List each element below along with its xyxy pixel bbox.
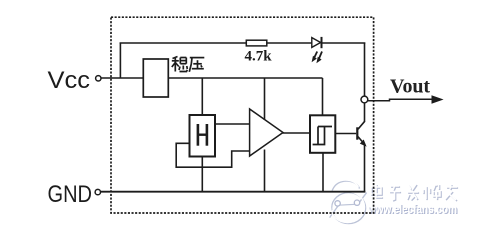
wire op-amp ground: [264, 150, 266, 193]
wire schmitt vcc feed: [322, 78, 324, 115]
regulator block: [143, 59, 168, 97]
node output: [361, 96, 368, 103]
watermark logo: [329, 180, 367, 224]
wire regulator to schmitt vcc rail: [168, 77, 322, 79]
wire Vout with arrow: [368, 99, 432, 100]
svg-text:Vout: Vout: [390, 75, 430, 97]
terminal GND: [95, 189, 100, 194]
label 稳压 (drawn): [172, 57, 188, 72]
wire ground rail: [101, 191, 365, 193]
schmitt trigger: [310, 115, 335, 153]
wire Vcc input to regulator: [101, 77, 143, 79]
wire top rail left segment: [120, 42, 247, 44]
wire op-amp vcc feed: [264, 78, 266, 120]
resistor R1 4.7k: [246, 40, 266, 46]
wire right rail down to node: [364, 43, 366, 97]
label H: [197, 124, 209, 146]
wire vertical up to top rail: [119, 43, 121, 79]
svg-text:www.elecfans.com: www.elecfans.com: [367, 202, 457, 216]
wire schmitt output to transistor base: [335, 133, 356, 135]
wire LED to right rail corner: [323, 42, 366, 44]
LED D1: [312, 37, 322, 63]
wire hall output to op-amp +: [215, 123, 250, 125]
svg-text:Vcc: Vcc: [48, 67, 91, 94]
svg-text:4.7k: 4.7k: [245, 49, 273, 65]
wire op-amp output: [283, 132, 311, 134]
hall element: [190, 115, 216, 157]
transistor Q1: [356, 121, 366, 146]
op-amp U1: [250, 109, 283, 156]
watermark text 电子发烧友 (drawn, embossed): [371, 184, 458, 201]
svg-text:GND: GND: [48, 181, 93, 208]
wire emitter to ground rail: [364, 145, 366, 193]
wire resistor to LED: [267, 42, 312, 44]
wire collector to node: [364, 102, 366, 122]
hysteresis symbol: [313, 127, 332, 145]
wire hall to ground: [201, 157, 203, 193]
wire schmitt to ground: [322, 153, 324, 192]
wire hall vcc feed: [201, 78, 203, 115]
wire hall feedback loop: [176, 143, 250, 167]
IC boundary dashed box: [111, 17, 374, 213]
terminal Vcc: [96, 76, 101, 81]
